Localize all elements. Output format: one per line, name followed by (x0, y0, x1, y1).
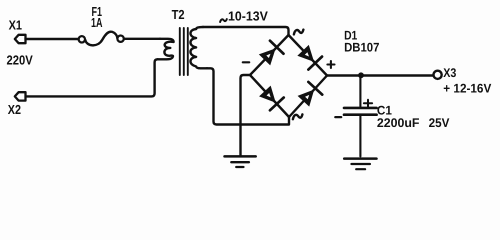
bridge rectifier D1 : diamond edges (250, 35, 327, 117)
plus mark at bridge right corner (327, 61, 334, 68)
terminal X2 (15, 92, 26, 100)
fuse F1 (79, 32, 124, 46)
svg-text:X3: X3 (443, 66, 456, 80)
AC mark top (~) (294, 30, 304, 35)
wire bridge right corner (+) to X3 (327, 74, 433, 76)
ground (right) (344, 159, 376, 170)
minus mark at C1 (335, 116, 341, 118)
minus mark at bridge left corner (243, 61, 249, 63)
terminal X3 (434, 71, 442, 79)
diode D1d (bottom corner to right corner) (298, 82, 323, 107)
wire X2 to primary bottom (26, 59, 158, 96)
svg-text:DB107: DB107 (344, 40, 379, 54)
plus mark at C1 (364, 100, 372, 107)
node junction dot at C1 tap (358, 72, 364, 78)
wire X1 to fuse F1 (26, 38, 79, 40)
AC mark bottom (~) (293, 114, 303, 119)
diode D1a (left corner to top corner) (259, 41, 284, 66)
transformer T2 primary winding (158, 39, 174, 60)
diode D1b (top corner to right corner) (297, 45, 322, 70)
svg-text:1A: 1A (91, 15, 103, 30)
svg-text:+ 12-16V: + 12-16V (443, 82, 492, 96)
svg-text:X2: X2 (8, 102, 21, 117)
transformer T2 secondary winding (190, 27, 207, 68)
wire fuse to transformer primary (124, 38, 160, 40)
terminal X1 (15, 35, 26, 43)
svg-text:X1: X1 (9, 17, 22, 32)
svg-text:T2: T2 (172, 7, 185, 22)
capacitor C1 (344, 75, 377, 156)
diode D1c (left corner to bottom corner) (259, 86, 284, 111)
svg-text:25V: 25V (429, 116, 450, 130)
svg-text:220V: 220V (7, 53, 34, 68)
transformer T2 core (180, 28, 188, 75)
svg-text:2200uF: 2200uF (377, 116, 420, 130)
wire secondary top to bridge top corner (203, 27, 289, 35)
wire bridge left corner to ground (241, 75, 251, 156)
svg-text:10-13V: 10-13V (228, 8, 268, 23)
label ~10-13V : tilde (220, 19, 227, 22)
wire secondary bottom to bridge bottom corner (207, 68, 289, 124)
ground (left) (225, 156, 256, 167)
